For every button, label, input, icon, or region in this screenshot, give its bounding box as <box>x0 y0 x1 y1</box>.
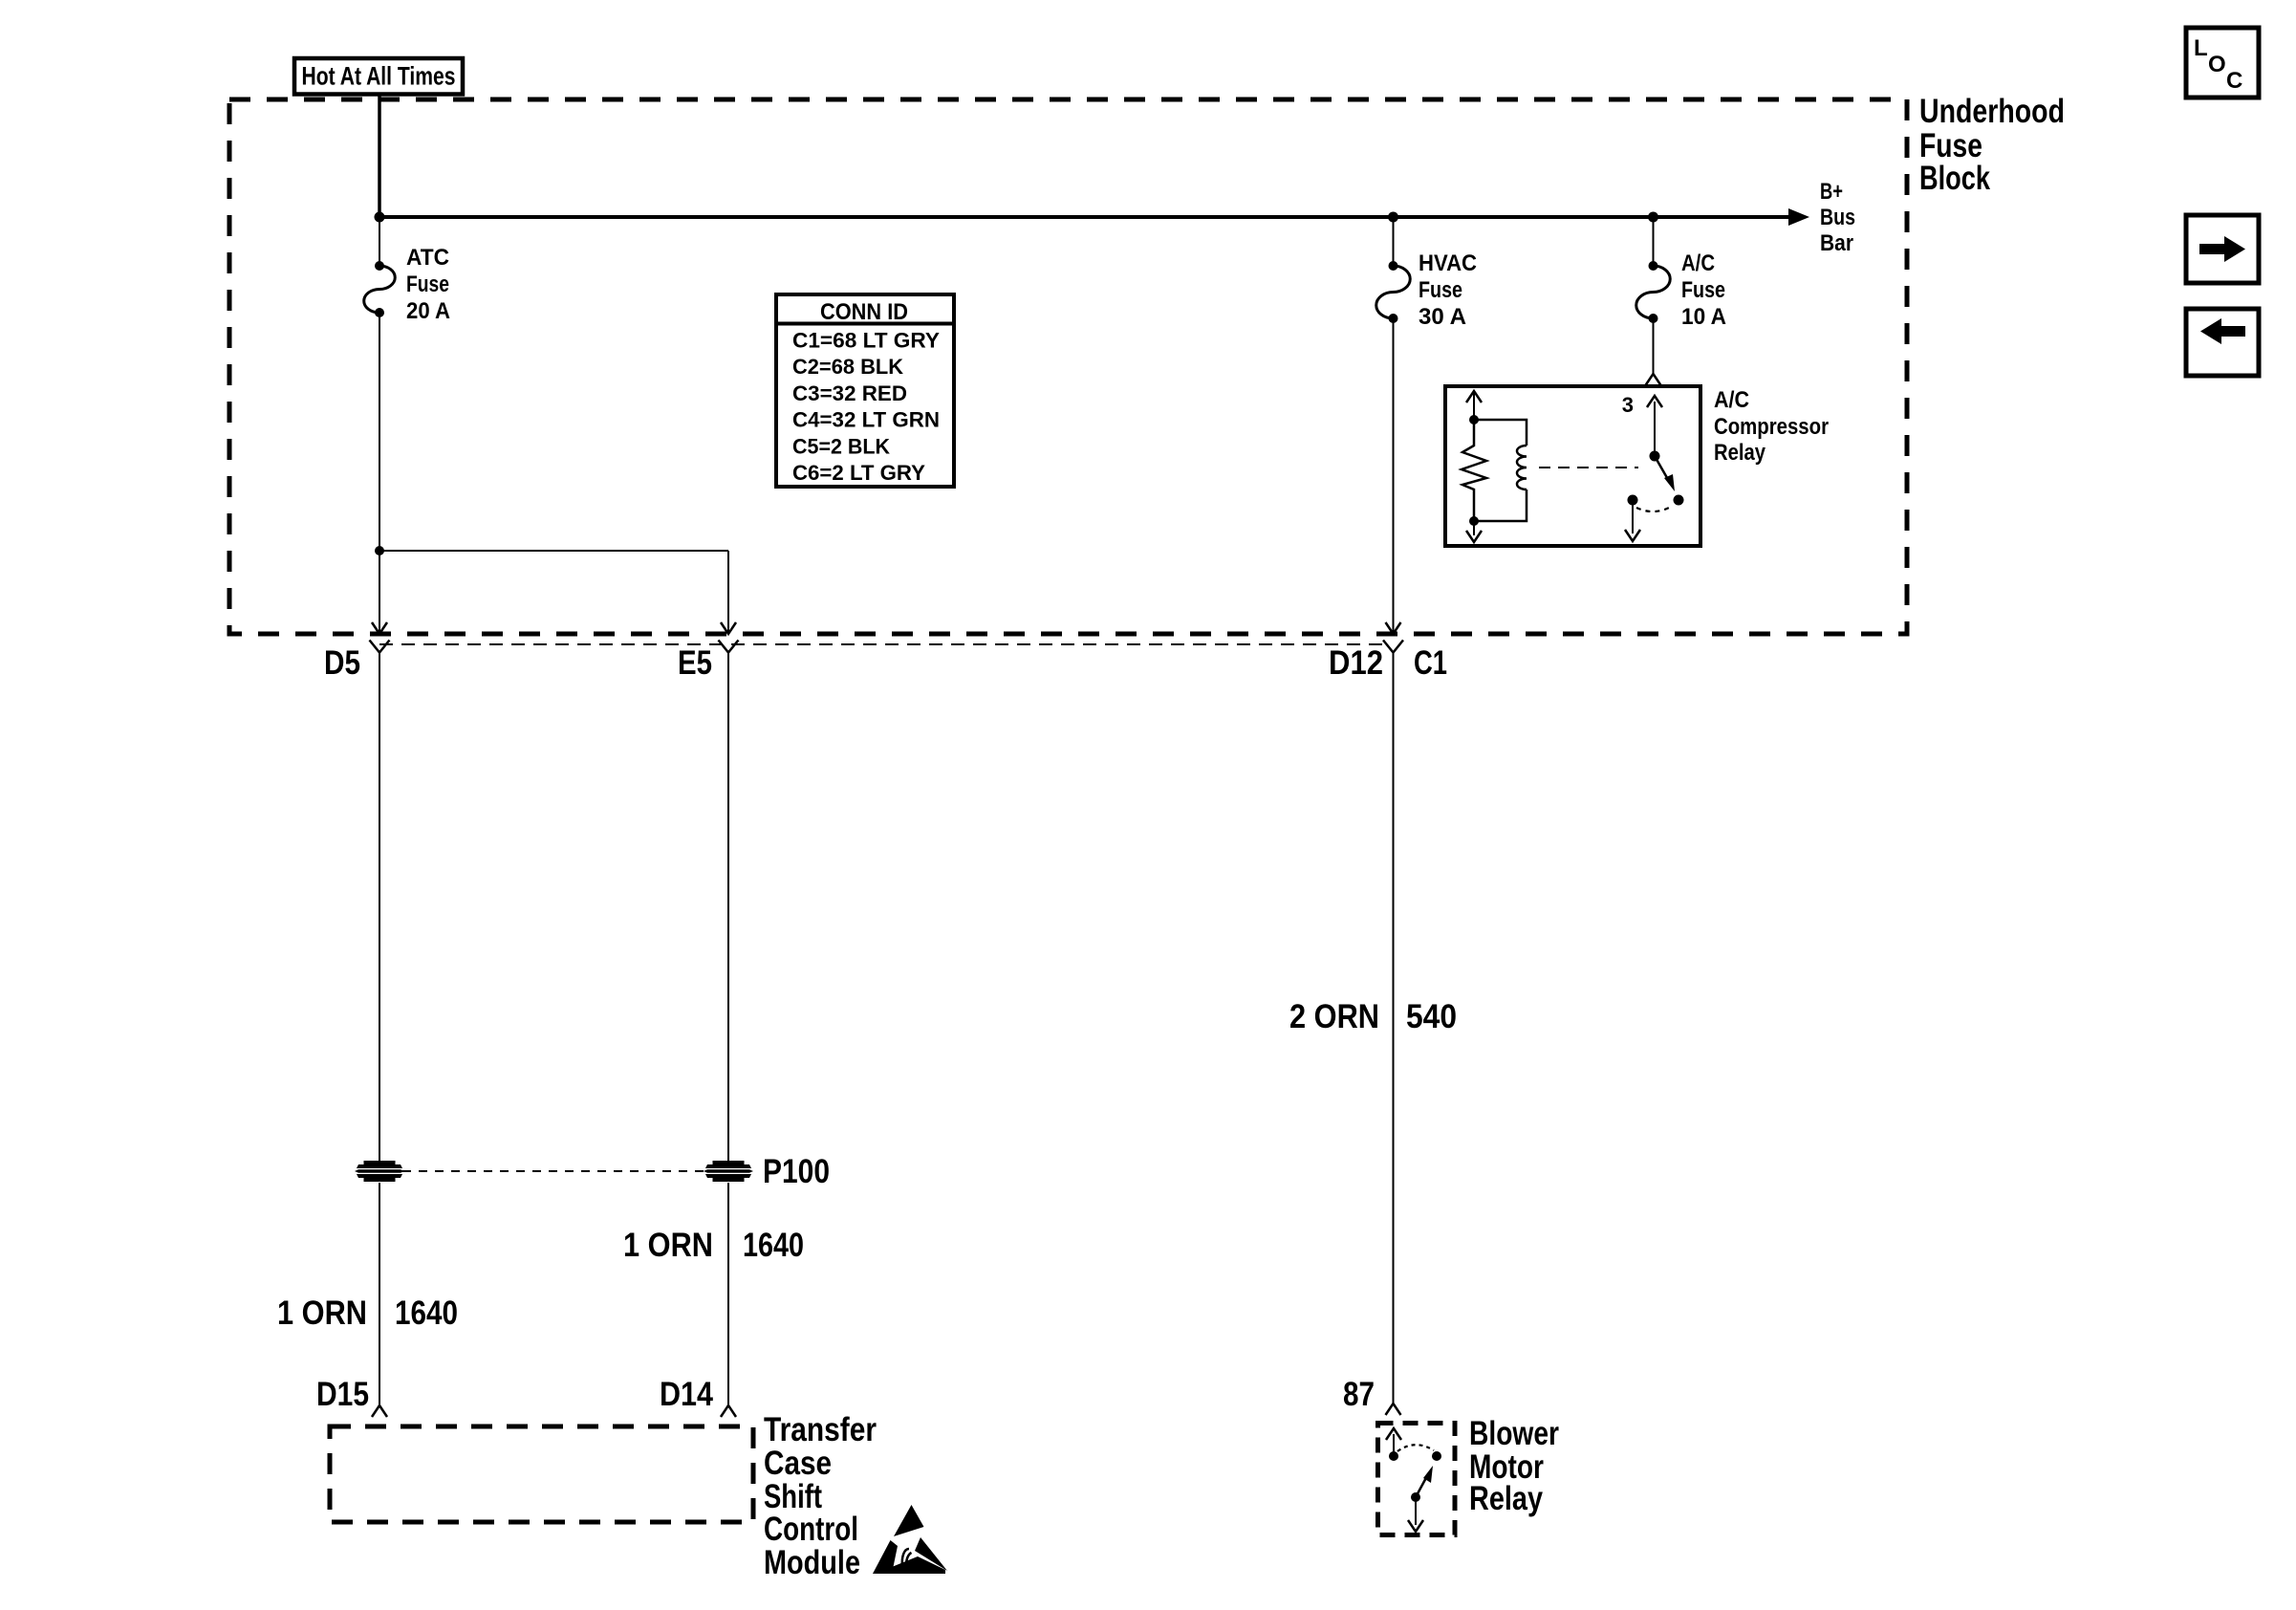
svg-text:Control: Control <box>764 1510 858 1548</box>
svg-text:Bar: Bar <box>1820 230 1853 256</box>
svg-text:2 ORN: 2 ORN <box>1289 997 1379 1035</box>
svg-text:Module: Module <box>764 1543 860 1581</box>
svg-text:B+: B+ <box>1820 179 1843 205</box>
svg-text:Fuse: Fuse <box>406 272 449 297</box>
svg-text:Relay: Relay <box>1714 440 1766 466</box>
svg-text:Blower: Blower <box>1469 1414 1559 1452</box>
svg-text:C1: C1 <box>1414 643 1447 682</box>
svg-text:20 A: 20 A <box>406 298 450 324</box>
svg-text:3: 3 <box>1622 393 1634 417</box>
svg-text:C1=68 LT GRY: C1=68 LT GRY <box>792 329 940 353</box>
svg-text:Compressor: Compressor <box>1714 414 1829 440</box>
svg-text:Underhood: Underhood <box>1919 92 2065 130</box>
svg-text:D14: D14 <box>660 1375 713 1413</box>
svg-text:540: 540 <box>1406 997 1457 1035</box>
svg-text:1640: 1640 <box>395 1294 458 1332</box>
svg-text:1 ORN: 1 ORN <box>623 1226 713 1264</box>
svg-text:10 A: 10 A <box>1681 304 1726 330</box>
svg-text:1 ORN: 1 ORN <box>277 1294 367 1332</box>
svg-text:Fuse: Fuse <box>1681 277 1725 303</box>
svg-text:A/C: A/C <box>1714 387 1749 413</box>
svg-text:Relay: Relay <box>1469 1479 1543 1517</box>
svg-text:Hot At All Times: Hot At All Times <box>302 62 456 91</box>
svg-text:C: C <box>2226 68 2242 94</box>
svg-text:C2=68 BLK: C2=68 BLK <box>792 355 903 379</box>
svg-text:O: O <box>2208 52 2226 77</box>
svg-text:Case: Case <box>764 1444 832 1482</box>
svg-text:Bus: Bus <box>1820 205 1855 230</box>
svg-text:C6=2 LT GRY: C6=2 LT GRY <box>792 461 925 485</box>
svg-text:E5: E5 <box>678 643 712 682</box>
svg-text:HVAC: HVAC <box>1419 250 1477 276</box>
svg-text:Transfer: Transfer <box>764 1410 877 1448</box>
svg-text:D12: D12 <box>1329 643 1383 682</box>
svg-text:D15: D15 <box>316 1375 369 1413</box>
svg-text:Fuse: Fuse <box>1419 277 1462 303</box>
svg-text:Block: Block <box>1919 159 1990 197</box>
svg-text:C4=32 LT GRN: C4=32 LT GRN <box>792 408 940 432</box>
svg-text:87: 87 <box>1343 1375 1375 1413</box>
svg-text:L: L <box>2194 35 2208 61</box>
svg-text:P100: P100 <box>763 1152 830 1190</box>
svg-text:1640: 1640 <box>743 1226 804 1264</box>
svg-text:C3=32 RED: C3=32 RED <box>792 381 907 405</box>
svg-text:D5: D5 <box>324 643 360 682</box>
svg-text:30 A: 30 A <box>1419 304 1466 330</box>
svg-text:C5=2 BLK: C5=2 BLK <box>792 434 890 458</box>
svg-text:CONN ID: CONN ID <box>820 299 908 325</box>
svg-text:A/C: A/C <box>1681 250 1715 276</box>
svg-text:ATC: ATC <box>406 245 449 271</box>
